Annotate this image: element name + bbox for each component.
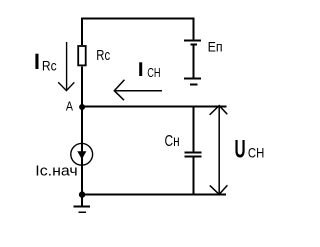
svg-text:U: U	[235, 135, 246, 163]
svg-text:А: А	[66, 99, 74, 113]
svg-text:Еп: Еп	[208, 39, 223, 54]
svg-text:Rc: Rc	[96, 47, 110, 64]
svg-text:СН: СН	[147, 65, 160, 80]
svg-text:Iс.нач: Iс.нач	[35, 164, 77, 180]
svg-text:Сн: Сн	[165, 133, 180, 150]
svg-text:Rc: Rc	[42, 57, 57, 73]
svg-text:СН: СН	[248, 144, 264, 160]
